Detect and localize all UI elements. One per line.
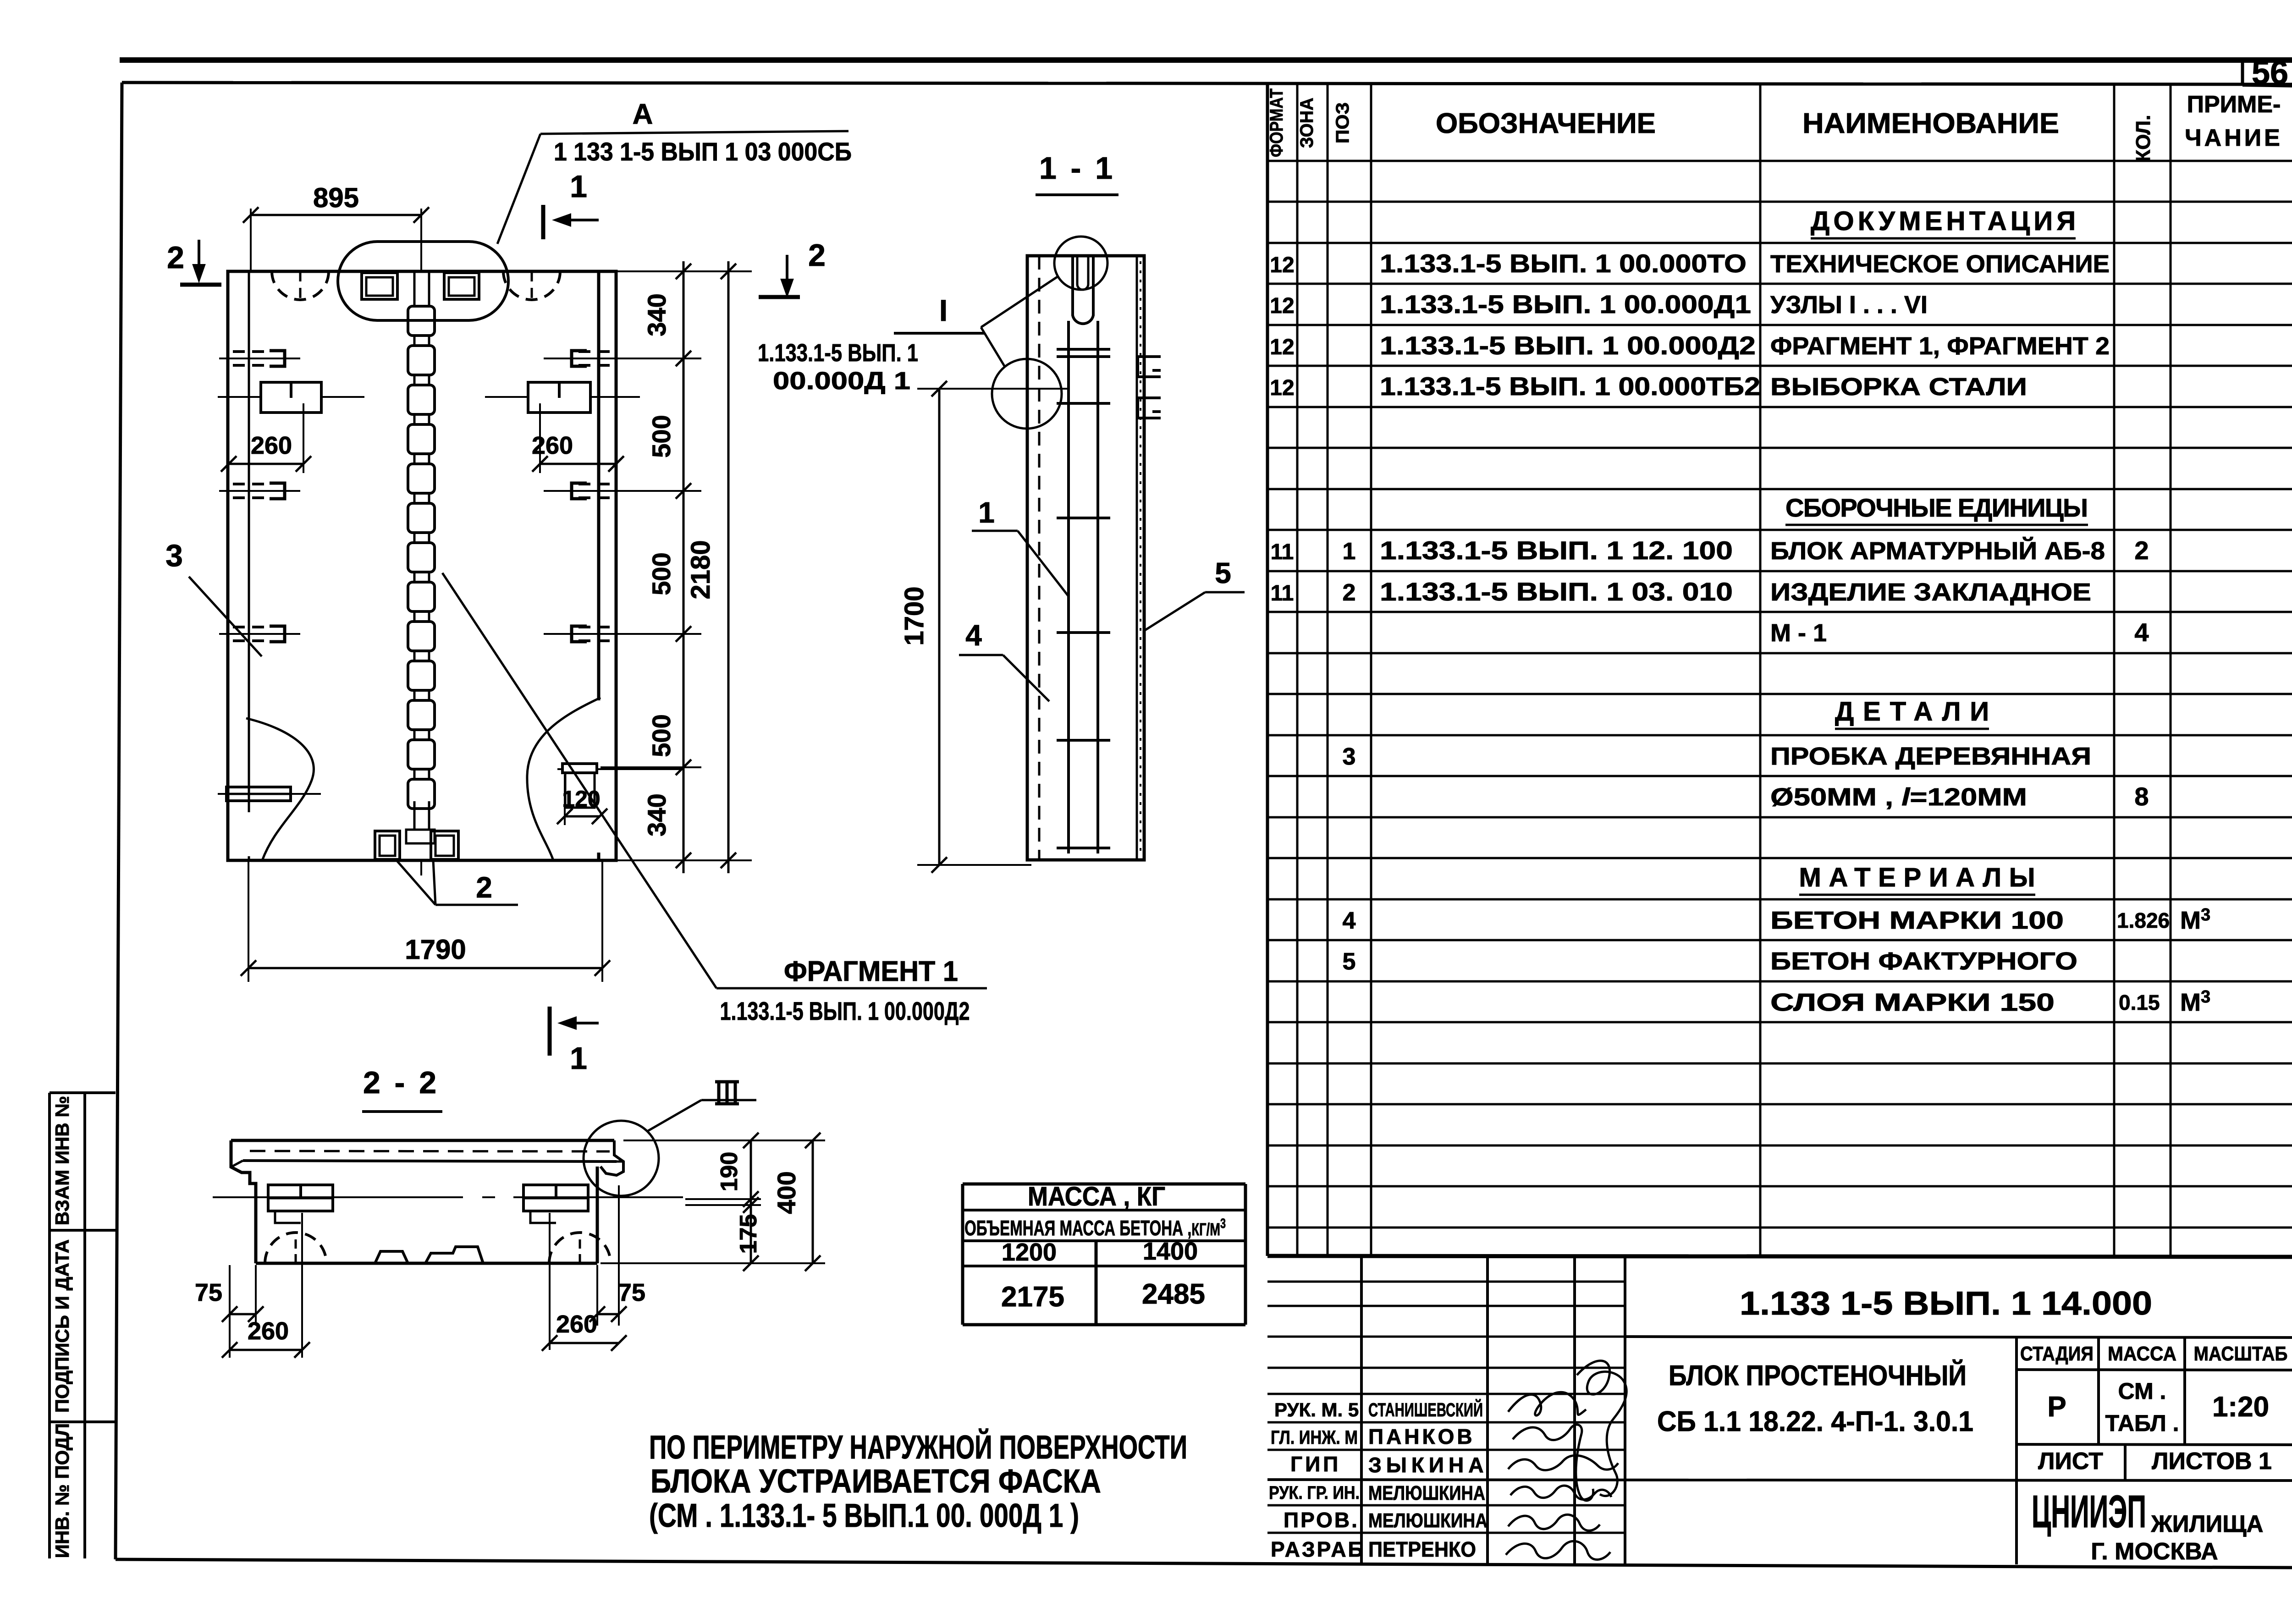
svg-text:340: 340: [642, 793, 671, 836]
svg-text:4: 4: [965, 619, 982, 652]
svg-text:МАСШТАБ: МАСШТАБ: [2194, 1343, 2288, 1365]
svg-text:ФОРМАТ: ФОРМАТ: [1267, 88, 1287, 157]
svg-text:БЕТОН МАРКИ 100: БЕТОН МАРКИ 100: [1770, 907, 2064, 934]
svg-text:НАИМЕНОВАНИЕ: НАИМЕНОВАНИЕ: [1802, 108, 2059, 139]
svg-text:120: 120: [562, 786, 600, 812]
svg-text:ГЛ. ИНЖ. М: ГЛ. ИНЖ. М: [1271, 1426, 1358, 1448]
svg-text:1700: 1700: [899, 586, 929, 645]
svg-text:ЗОНА: ЗОНА: [1297, 98, 1317, 148]
svg-text:Ø50ММ , l=120ММ: Ø50ММ , l=120ММ: [1770, 783, 2027, 811]
svg-text:ГИП: ГИП: [1290, 1452, 1341, 1476]
svg-text:1.133.1-5 ВЫП. 1 00.000Д2: 1.133.1-5 ВЫП. 1 00.000Д2: [1380, 331, 1756, 360]
svg-text:260: 260: [532, 432, 573, 459]
svg-text:2180: 2180: [686, 540, 716, 599]
svg-text:1.133 1-5 ВЫП. 1 14.000: 1.133 1-5 ВЫП. 1 14.000: [1740, 1285, 2152, 1322]
svg-text:1 133 1-5 ВЫП 1 03 000СБ: 1 133 1-5 ВЫП 1 03 000СБ: [554, 137, 852, 166]
svg-text:ВЗАМ ИНВ №: ВЗАМ ИНВ №: [51, 1096, 73, 1225]
svg-text:ПРИМЕ-: ПРИМЕ-: [2187, 91, 2281, 118]
svg-text:ВЫБОРКА СТАЛИ: ВЫБОРКА СТАЛИ: [1770, 373, 2027, 401]
svg-text:895: 895: [313, 182, 359, 213]
svg-text:СБ 1.1 18.22. 4-П-1. 3.0.1: СБ 1.1 18.22. 4-П-1. 3.0.1: [1657, 1406, 1973, 1437]
svg-text:2: 2: [476, 871, 492, 904]
svg-text:ОБОЗНАЧЕНИЕ: ОБОЗНАЧЕНИЕ: [1436, 108, 1656, 139]
svg-text:1:20: 1:20: [2212, 1391, 2269, 1423]
svg-text:(СМ . 1.133.1- 5 ВЫП.1 00. 0: (СМ . 1.133.1- 5 ВЫП.1 00. 000Д 1 ): [649, 1497, 1079, 1534]
svg-text:ЗЫКИНА: ЗЫКИНА: [1368, 1453, 1488, 1477]
svg-text:75: 75: [195, 1279, 222, 1306]
svg-text:4: 4: [2134, 618, 2149, 647]
svg-text:400: 400: [772, 1171, 801, 1214]
svg-text:М - 1: М - 1: [1770, 619, 1827, 647]
svg-text:56: 56: [2252, 55, 2288, 91]
svg-text:МАССА , КГ: МАССА , КГ: [1028, 1182, 1165, 1211]
svg-text:3: 3: [165, 538, 183, 573]
svg-text:11: 11: [1271, 581, 1294, 606]
svg-text:МАССА: МАССА: [2108, 1343, 2176, 1365]
svg-text:2: 2: [808, 238, 826, 273]
svg-text:340: 340: [642, 293, 671, 336]
svg-text:КОЛ.: КОЛ.: [2132, 115, 2154, 162]
svg-text:БЛОКА УСТРАИВАЕТСЯ ФАСКА: БЛОКА УСТРАИВАЕТСЯ ФАСКА: [650, 1463, 1101, 1500]
svg-text:500: 500: [647, 552, 676, 595]
svg-text:1.133.1-5 ВЫП. 1 00.000ТО: 1.133.1-5 ВЫП. 1 00.000ТО: [1380, 249, 1747, 278]
svg-text:00.000Д 1: 00.000Д 1: [773, 367, 910, 395]
svg-text:ЦНИИЭП: ЦНИИЭП: [2032, 1486, 2146, 1537]
svg-text:12: 12: [1270, 253, 1294, 277]
svg-text:ТАБЛ .: ТАБЛ .: [2105, 1410, 2179, 1436]
svg-text:ПАНКОВ: ПАНКОВ: [1368, 1425, 1475, 1448]
svg-text:2: 2: [2134, 536, 2149, 565]
svg-text:ПРОВ.: ПРОВ.: [1284, 1508, 1359, 1532]
svg-text:Г. МОСКВА: Г. МОСКВА: [2091, 1538, 2218, 1565]
svg-text:2: 2: [167, 240, 184, 275]
svg-text:260: 260: [251, 432, 292, 459]
svg-text:1 - 1: 1 - 1: [1039, 151, 1115, 186]
svg-text:ПОЗ: ПОЗ: [1333, 102, 1353, 143]
svg-text:5: 5: [1215, 556, 1231, 589]
svg-text:1200: 1200: [1002, 1239, 1057, 1266]
svg-text:1: 1: [570, 1041, 587, 1076]
svg-text:МАТЕРИАЛЫ: МАТЕРИАЛЫ: [1799, 863, 2035, 892]
svg-text:2175: 2175: [1001, 1281, 1064, 1313]
svg-text:СБОРОЧНЫЕ ЕДИНИЦЫ: СБОРОЧНЫЕ ЕДИНИЦЫ: [1785, 493, 2088, 522]
svg-text:ТЕХНИЧЕСКОЕ ОПИСАНИЕ: ТЕХНИЧЕСКОЕ ОПИСАНИЕ: [1770, 250, 2110, 278]
svg-text:СМ .: СМ .: [2118, 1378, 2166, 1404]
svg-text:СТАНИШЕВСКИЙ: СТАНИШЕВСКИЙ: [1368, 1398, 1483, 1420]
svg-text:ИЗДЕЛИЕ ЗАКЛАДНОЕ: ИЗДЕЛИЕ ЗАКЛАДНОЕ: [1770, 578, 2091, 606]
svg-text:1790: 1790: [405, 934, 466, 965]
svg-text:8: 8: [2134, 782, 2149, 811]
svg-text:ЛИСТОВ 1: ЛИСТОВ 1: [2152, 1448, 2272, 1475]
svg-text:МЕЛЮШКИНА: МЕЛЮШКИНА: [1368, 1482, 1485, 1504]
svg-text:4: 4: [1343, 908, 1356, 934]
svg-text:ФРАГМЕНТ 1, ФРАГМЕНТ 2: ФРАГМЕНТ 1, ФРАГМЕНТ 2: [1770, 332, 2110, 360]
svg-text:2: 2: [1343, 579, 1356, 606]
svg-text:БЕТОН ФАКТУРНОГО: БЕТОН ФАКТУРНОГО: [1770, 947, 2077, 975]
svg-text:1: 1: [1343, 538, 1356, 565]
svg-text:РУК. М. 5: РУК. М. 5: [1274, 1399, 1359, 1420]
svg-text:11: 11: [1271, 540, 1294, 564]
svg-text:ЛИСТ: ЛИСТ: [2038, 1448, 2103, 1475]
svg-text:2 - 2: 2 - 2: [363, 1065, 439, 1100]
svg-text:ЧАНИЕ: ЧАНИЕ: [2185, 125, 2283, 151]
svg-text:3: 3: [1343, 743, 1356, 770]
svg-text:0.15: 0.15: [2119, 991, 2160, 1014]
svg-text:СТАДИЯ: СТАДИЯ: [2020, 1343, 2094, 1365]
svg-text:500: 500: [647, 415, 676, 457]
svg-text:УЗЛЫ I . . . VI: УЗЛЫ I . . . VI: [1770, 291, 1928, 319]
svg-text:175: 175: [735, 1214, 762, 1254]
svg-text:ПРОБКА ДЕРЕВЯННАЯ: ПРОБКА ДЕРЕВЯННАЯ: [1770, 743, 2091, 770]
svg-text:I: I: [939, 293, 948, 327]
svg-text:2485: 2485: [1142, 1278, 1205, 1310]
svg-text:1.133.1-5 ВЫП. 1 12. 100: 1.133.1-5 ВЫП. 1 12. 100: [1380, 536, 1733, 565]
svg-text:ЖИЛИЩА: ЖИЛИЩА: [2151, 1511, 2264, 1537]
svg-text:75: 75: [618, 1279, 645, 1306]
svg-text:500: 500: [647, 714, 676, 757]
svg-text:1: 1: [978, 496, 995, 529]
svg-text:1: 1: [570, 169, 587, 204]
svg-text:5: 5: [1343, 948, 1356, 975]
svg-text:1.133.1-5 ВЫП. 1 00.000ТБ2: 1.133.1-5 ВЫП. 1 00.000ТБ2: [1380, 372, 1760, 401]
svg-text:1400: 1400: [1143, 1238, 1198, 1265]
svg-text:1.133.1-5 ВЫП. 1 03. 010: 1.133.1-5 ВЫП. 1 03. 010: [1380, 577, 1733, 606]
svg-text:РАЗРАБ: РАЗРАБ: [1271, 1537, 1365, 1561]
svg-text:БЛОК ПРОСТЕНОЧНЫЙ: БЛОК ПРОСТЕНОЧНЫЙ: [1669, 1360, 1967, 1392]
svg-text:ПОДПИСЬ И ДАТА: ПОДПИСЬ И ДАТА: [51, 1239, 73, 1413]
svg-text:Р: Р: [2047, 1391, 2066, 1423]
svg-text:ИНВ. № ПОДЛ: ИНВ. № ПОДЛ: [51, 1423, 73, 1558]
svg-text:ОБЪЕМНАЯ МАССА БЕТОНА ,КГ/М3: ОБЪЕМНАЯ МАССА БЕТОНА ,КГ/М3: [964, 1216, 1226, 1240]
svg-text:1.133.1-5 ВЫП. 1 00.000Д1: 1.133.1-5 ВЫП. 1 00.000Д1: [1380, 290, 1751, 319]
svg-text:РУК. ГР. ИН.: РУК. ГР. ИН.: [1269, 1483, 1360, 1503]
svg-text:СЛОЯ МАРКИ 150: СЛОЯ МАРКИ 150: [1770, 989, 2055, 1016]
svg-text:260: 260: [248, 1317, 289, 1345]
svg-text:190: 190: [716, 1152, 743, 1192]
svg-text:ПЕТРЕНКО: ПЕТРЕНКО: [1368, 1537, 1476, 1561]
svg-text:260: 260: [556, 1310, 597, 1338]
svg-text:12: 12: [1270, 376, 1294, 400]
svg-text:1.133.1-5 ВЫП. 1 00.000Д2: 1.133.1-5 ВЫП. 1 00.000Д2: [720, 996, 970, 1025]
svg-text:ФРАГМЕНТ 1: ФРАГМЕНТ 1: [784, 956, 958, 987]
svg-text:МЕЛЮШКИНА: МЕЛЮШКИНА: [1368, 1509, 1488, 1532]
svg-text:1.826: 1.826: [2117, 908, 2170, 932]
svg-text:12: 12: [1270, 294, 1294, 318]
svg-text:ПО ПЕРИМЕТРУ НАРУЖНОЙ ПОВЕРХ: ПО ПЕРИМЕТРУ НАРУЖНОЙ ПОВЕРХНОСТИ: [649, 1428, 1187, 1466]
svg-text:12: 12: [1270, 335, 1294, 359]
svg-text:БЛОК АРМАТУРНЫЙ АБ-8: БЛОК АРМАТУРНЫЙ АБ-8: [1770, 537, 2105, 565]
svg-text:1.133.1-5 ВЫП. 1: 1.133.1-5 ВЫП. 1: [758, 339, 918, 367]
svg-text:А: А: [633, 99, 653, 130]
